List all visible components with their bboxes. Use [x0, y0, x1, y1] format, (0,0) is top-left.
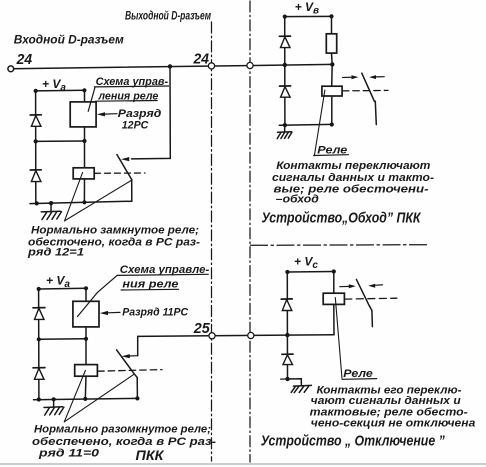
svg-text:Устройство „ Отключение ”: Устройство „ Отключение ”: [261, 433, 446, 449]
svg-text:тактовые; реле обесто-: тактовые; реле обесто-: [310, 406, 469, 418]
wire: UL top rail: [36, 89, 85, 92]
net 24: connector node circle on line A: [208, 63, 214, 69]
wire: top rail to control box: [84, 90, 86, 102]
diode D-LL1: [33, 308, 45, 320]
relay coil K-LL: [75, 365, 98, 377]
net 24: junction dot to relay contact: [168, 64, 172, 68]
svg-text:Нормально разомкнутое реле;: Нормально разомкнутое реле;: [34, 424, 211, 436]
svg-text:Разряд: Разряд: [118, 108, 162, 120]
wire: UL left rail: [35, 91, 37, 203]
svg-text:+ Vв: + Vв: [295, 0, 319, 16]
contact moving end wire: [375, 101, 376, 124]
svg-text:12РС: 12РС: [122, 119, 149, 131]
ground (upper-right): [277, 125, 292, 139]
junction dot: [52, 397, 56, 401]
junction dot: [330, 122, 334, 126]
leader lines from note to coil and contact: [65, 172, 83, 221]
diode D-UL2: [30, 170, 41, 182]
mechanical link (dashed) coil to contact: [345, 297, 397, 300]
relay contact blade (disconnect): [356, 279, 371, 310]
wire: LR left rail lower: [286, 335, 288, 379]
leader line to Реле label: [335, 298, 342, 379]
diode D-UL1: [30, 115, 41, 127]
junction dot: [283, 123, 287, 127]
dash-dot bus line B (section boundary vertical): [249, 1, 251, 462]
wire: mid rail to relay coil: [84, 141, 86, 168]
diode D-LR2: [282, 354, 293, 365]
net 24: input terminal circle: [8, 66, 14, 72]
svg-text:24: 24: [193, 50, 210, 67]
svg-text:Нормально замкнутое реле;: Нормально замкнутое реле;: [31, 224, 199, 236]
svg-text:ПКК: ПКК: [136, 448, 166, 463]
svg-text:+ Vc: + Vc: [294, 254, 318, 271]
svg-text:ряд 11=0: ряд 11=0: [38, 448, 99, 460]
dash-dot bus line A (output D-connector): [211, 22, 213, 461]
resistor R-UR: [326, 34, 336, 53]
diode D-UR2: [280, 86, 291, 97]
junction dot: [283, 15, 287, 19]
wire: LL top rail: [39, 287, 86, 290]
junction dot: [135, 396, 139, 400]
wire: LR top rail: [287, 271, 334, 274]
junction dot: [37, 397, 41, 401]
relay coil K-UR: [322, 86, 342, 96]
junction dot: [82, 139, 86, 143]
wire: relay coil to bottom rail: [83, 179, 85, 202]
wire: relay coil down to net 25: [333, 304, 335, 334]
wire: net24 down to contact arrow: [132, 66, 171, 158]
mechanical link (dashed) coil to contact: [98, 370, 162, 372]
arrow to contact: [121, 157, 129, 161]
wire: resistor to net24: [331, 53, 334, 64]
wire: UL bottom rail: [30, 201, 132, 203]
net 24: wire: [12, 64, 332, 68]
wire: UL mid rail: [36, 140, 85, 142]
wire: top rail to control box: [85, 288, 87, 301]
junction dot: [37, 287, 41, 291]
svg-text:24: 24: [16, 51, 33, 68]
svg-text:+ Va: + Va: [46, 273, 70, 290]
stub tick left of dot: [281, 378, 285, 380]
relay contact blade (normally closed): [117, 155, 132, 180]
ground (lower-left): [44, 399, 64, 415]
wire: contact to bottom rail: [136, 378, 138, 399]
junction dot: [35, 201, 39, 205]
wire: net24 to relay coil: [331, 64, 334, 86]
wire: relay coil to bottom rail: [84, 376, 87, 399]
wire: top rail to relay coil: [333, 272, 335, 294]
wire: UR bottom rail: [279, 123, 332, 126]
wire: LL mid rail: [39, 338, 86, 341]
svg-text:Выходной D-разъем: Выходной D-разъем: [125, 11, 211, 23]
diode D-LR1: [281, 299, 292, 311]
junction dot: [82, 88, 86, 92]
wire: top rail to resistor: [331, 16, 333, 33]
dash-dot section boundary horizontal: [251, 244, 430, 247]
svg-text:Входной D-разъем: Входной D-разъем: [14, 33, 124, 47]
relay coil K-UL: [73, 168, 94, 179]
junction dot: [83, 397, 87, 401]
faint page rule at bottom: [0, 463, 486, 465]
junction dot net24 end: [330, 62, 334, 66]
diode D-LL2: [33, 368, 45, 380]
junction dot: [37, 337, 41, 341]
relay contact blade (normally open): [117, 350, 138, 378]
wire: control box to mid rail: [84, 127, 86, 141]
leader lines from note to coil and contact: [64, 371, 85, 422]
junction dot: [84, 337, 88, 341]
wire: control box to mid rail: [85, 327, 87, 339]
junction dot: [329, 14, 333, 18]
junction dot net25 on LR left rail: [285, 333, 289, 337]
svg-text:Устройство„Обход” ПКК: Устройство„Обход” ПКК: [262, 210, 422, 226]
svg-text:25: 25: [193, 320, 211, 337]
wire: LL left rail: [38, 289, 40, 399]
wire: contact to bottom rail: [131, 180, 133, 201]
ground (upper-left): [41, 203, 61, 220]
relay control box U-UL (Схема управления реле): [70, 102, 96, 127]
junction dot: [285, 270, 289, 274]
svg-text:Контакты переключают: Контакты переключают: [276, 160, 430, 172]
junction dot: [332, 269, 336, 273]
junction dot net24 on UR left rail: [283, 63, 287, 67]
arrow from net 25 to contact: [129, 355, 138, 357]
leader line from label into control box: [78, 275, 118, 316]
net 25: connector node circle on line B: [248, 332, 254, 338]
mechanical link (dashed) coil to contact: [95, 172, 146, 174]
relay coil K-LR: [323, 293, 344, 304]
junction dot: [49, 201, 53, 205]
junction dot: [34, 139, 38, 143]
relay contact blade (bypass): [362, 73, 375, 101]
wire: LL bottom rail: [34, 398, 138, 399]
junction dot above ground: [285, 377, 289, 381]
net 25: wire drop to contact: [137, 336, 139, 355]
diode D-UR1: [279, 36, 290, 48]
mechanical link (dashed) coil to contact: [342, 89, 388, 92]
wire: mid rail to relay coil: [85, 339, 87, 365]
relay control box U-LL (Схема управления реле): [73, 301, 99, 327]
ground (lower-right, stepped): [288, 379, 312, 393]
svg-text:ния реле: ния реле: [122, 279, 178, 291]
junction dot: [34, 89, 38, 93]
net 25: wire: [138, 335, 334, 337]
net 25: connector node circle on line A: [209, 333, 215, 339]
wire: LR left rail upper: [286, 272, 288, 335]
junction dot: [82, 200, 86, 204]
svg-text:чено-секция не отключена: чено-секция не отключена: [311, 418, 476, 430]
actuation arrows: [340, 284, 383, 288]
svg-text:Разряд 11РС: Разряд 11РС: [122, 307, 188, 319]
wire: relay coil to bottom rail: [331, 96, 333, 124]
actuation arrows: [343, 75, 385, 79]
contact moving end wire: [371, 310, 374, 326]
svg-text:сигналы данных и такто-: сигналы данных и такто-: [272, 172, 435, 184]
wire: UR left rail: [284, 17, 286, 125]
svg-text:ряд 12=1: ряд 12=1: [27, 247, 84, 259]
leader line to Реле label: [315, 90, 325, 155]
junction dot: [84, 286, 88, 290]
wire: UR top rail: [285, 15, 332, 17]
svg-text:обеспечено, когда в РС раз-: обеспечено, когда в РС раз-: [32, 436, 217, 448]
svg-text:–обход: –обход: [276, 194, 320, 206]
net 24: connector node circle on line B: [247, 62, 253, 68]
leader line from label into control box: [88, 87, 95, 111]
